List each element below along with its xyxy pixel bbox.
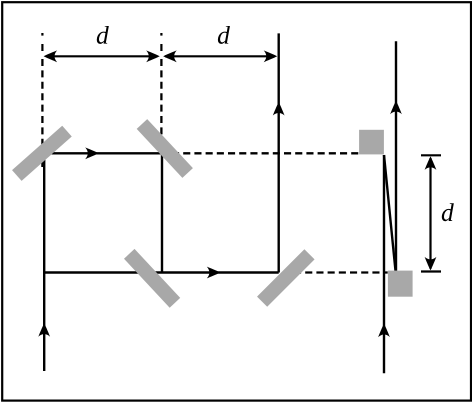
dashed reference line V2 first dash — [160, 44, 162, 51]
square mirror S2 (bottom) — [388, 271, 413, 297]
dimension arrow d3 down head — [425, 257, 437, 271]
beam wire: slanted between square mirrors — [384, 155, 396, 271]
mirror M2 (top-middle, "\" tilt) — [137, 119, 193, 178]
dimension arrow d1 left head — [44, 50, 58, 62]
dimension arrow d2 left head — [163, 50, 177, 62]
beam direction arrow right on top horizontal — [85, 147, 99, 159]
dashed beam continuation top (y=153) — [172, 152, 359, 154]
mirror M1 (top-left, "/" tilt) — [12, 126, 72, 181]
beam direction arrow up on left vertical — [38, 323, 50, 337]
beam direction arrow up on right input — [378, 324, 390, 338]
beam direction arrow up on right output — [390, 101, 402, 115]
label d2 — [218, 26, 230, 44]
beam wire: tall vertical (x=278.7) — [278, 33, 280, 272]
dimension arrow d2 shaft — [165, 55, 275, 57]
dashed reference line V1 top dot — [41, 33, 43, 36]
mirror M3 (bottom-middle, "\" tilt) — [124, 249, 180, 308]
beam wire: top horizontal (y=153) — [44, 152, 162, 154]
dashed reference line V2 (x=161) — [160, 59, 162, 145]
label d1 — [97, 26, 109, 44]
dimension d3 top cap — [421, 154, 441, 156]
beam wire: middle vertical (x=162) — [161, 153, 163, 272]
dashed reference line V1 first dash — [41, 44, 43, 51]
dimension arrow d2 right head — [264, 50, 278, 62]
dimension arrow d1 right head — [146, 50, 160, 62]
mirror M4 (bottom-right, "/" tilt) — [257, 249, 315, 307]
beam wire: right input vertical (x=384) — [383, 155, 385, 373]
beam wire: right output vertical (x=396) — [395, 41, 397, 271]
dimension arrow d1 shaft — [46, 55, 158, 57]
dimension arrow d3 shaft — [429, 158, 431, 269]
dimension d3 bottom cap — [421, 270, 441, 272]
dashed beam continuation bottom (y=272.5) — [294, 271, 388, 273]
beam direction arrow right on bottom horizontal — [207, 267, 221, 279]
beam wire: left vertical (x=44) — [43, 152, 45, 371]
label d3 — [442, 203, 454, 221]
dashed reference line V1 (x=42) — [41, 59, 43, 167]
square mirror S1 (top) — [359, 130, 384, 155]
dashed reference line V2 top dot — [160, 33, 162, 36]
beam direction arrow up on tall vertical — [273, 102, 285, 116]
beam wire: bottom horizontal (y=272.5) — [43, 271, 279, 273]
dimension arrow d3 up head — [425, 156, 437, 170]
